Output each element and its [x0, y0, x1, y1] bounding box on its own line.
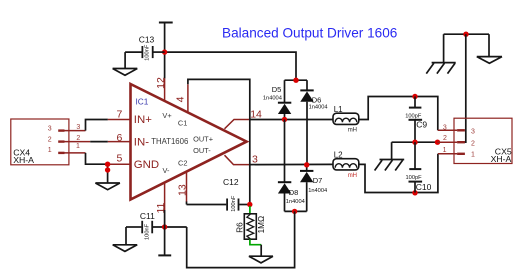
svg-text:3: 3 [443, 124, 447, 131]
svg-text:2: 2 [76, 135, 80, 142]
IC1 pin 13 [186, 172, 188, 202]
svg-text:XH-A: XH-A [491, 154, 512, 164]
wire bottom rail to V- net [187, 211, 295, 267]
IC1 pin 14 OUT+ [225, 120, 250, 129]
svg-text:OUT+: OUT+ [193, 134, 213, 143]
CX4 pin 3 lead [65, 130, 86, 132]
inductor L1 [333, 105, 359, 134]
svg-text:D8: D8 [289, 188, 299, 197]
svg-text:C11: C11 [140, 211, 155, 221]
junction C10 bottom [412, 190, 417, 195]
connector CX5 [454, 118, 512, 164]
diode D6 [300, 80, 327, 165]
diode bottom rail [285, 210, 307, 212]
wire D8 branch from OUT+ [284, 120, 286, 182]
svg-text:1MΩ: 1MΩ [257, 216, 266, 234]
capacitor C11 [126, 211, 187, 240]
mid node wire [392, 141, 438, 143]
inductor L2 [333, 150, 359, 179]
svg-text:1: 1 [76, 143, 80, 150]
svg-text:C9: C9 [416, 119, 427, 129]
svg-text:1n4004: 1n4004 [309, 104, 328, 110]
svg-text:L1: L1 [334, 105, 343, 114]
svg-text:100pF: 100pF [406, 175, 423, 181]
wire OUT+ net to L1 [249, 119, 334, 121]
junction C9 top [412, 94, 417, 99]
junction OUT+ / D5 [282, 117, 287, 122]
IC1 pin 11 [164, 183, 166, 211]
ground at CX4 [95, 183, 120, 190]
svg-text:1n4004: 1n4004 [263, 96, 282, 102]
svg-text:IN+: IN+ [134, 114, 152, 126]
IC1 pin 5 [108, 163, 131, 165]
capacitor C12 [187, 177, 250, 212]
ground at C11 [113, 227, 138, 251]
wire pin13 corner [186, 202, 188, 205]
svg-text:D5: D5 [272, 85, 282, 94]
svg-text:mH: mH [348, 128, 357, 134]
earth ground mid [375, 142, 405, 170]
svg-text:D6: D6 [312, 95, 322, 104]
svg-text:100nF: 100nF [231, 195, 237, 212]
svg-text:1: 1 [471, 152, 475, 159]
svg-text:5: 5 [117, 152, 123, 164]
diode D7 [300, 165, 327, 212]
svg-text:13: 13 [176, 184, 188, 196]
svg-text:1n4004: 1n4004 [286, 199, 305, 205]
wire R6 to ground (green) [250, 239, 261, 245]
svg-text:THAT1606: THAT1606 [151, 137, 188, 146]
svg-text:D7: D7 [313, 176, 323, 185]
wire CX4 pin1 to ground / IC pin5 [86, 153, 108, 164]
resistor R6 [236, 206, 266, 239]
svg-text:1n4004: 1n4004 [308, 188, 327, 194]
CX5 pin 2 lead [438, 141, 458, 143]
IC1 pin 7 [108, 119, 131, 121]
svg-text:IN-: IN- [134, 136, 149, 148]
svg-text:C13: C13 [139, 35, 155, 45]
svg-text:100nF: 100nF [145, 223, 151, 240]
junction OUT- / D7 [304, 162, 309, 167]
wire pin11 to V- bar [164, 210, 166, 255]
svg-text:100nF: 100nF [144, 44, 150, 61]
diode D8 [278, 182, 305, 211]
IC1 pin 3 OUT- [225, 155, 250, 164]
diode rail top [285, 79, 308, 81]
svg-text:3: 3 [48, 125, 52, 132]
svg-text:2: 2 [443, 135, 447, 142]
wire CX4 pin3 to IC pin7 [86, 120, 108, 131]
svg-text:R6: R6 [236, 222, 245, 233]
wire CX4 pin2 to IC pin6 [90, 141, 108, 143]
junction node at C13 [162, 49, 167, 54]
svg-text:C12: C12 [223, 177, 239, 187]
junction mid node [412, 140, 417, 145]
supply bar V- bottom [158, 254, 171, 256]
svg-text:mH: mH [348, 173, 357, 179]
wire gnd drop [107, 164, 109, 183]
capacitor C9 [405, 97, 427, 143]
junction bottom rail [292, 209, 297, 214]
svg-text:GND: GND [134, 159, 159, 171]
svg-text:V+: V+ [162, 111, 171, 120]
svg-text:IC1: IC1 [136, 97, 149, 107]
svg-text:OUT-: OUT- [193, 146, 211, 155]
svg-text:C2: C2 [178, 158, 187, 167]
wire C13 node to IC pin 12 [164, 52, 166, 78]
svg-text:XH-A: XH-A [13, 155, 34, 165]
svg-text:1: 1 [48, 147, 52, 154]
CX5 pin 3 lead [438, 129, 457, 131]
wire L2 to C10 bottom node [359, 154, 438, 193]
wire V+ bar to C13 node [164, 23, 166, 53]
IC1 pin 6 [108, 141, 131, 143]
CX5 pin 1 lead [438, 153, 457, 155]
svg-text:12: 12 [155, 77, 167, 89]
junction C11 / pin11 [162, 224, 167, 229]
wire L1 to C9 top node [359, 97, 438, 131]
svg-text:C10: C10 [416, 182, 432, 192]
svg-text:L2: L2 [334, 150, 343, 159]
IC1 op-amp triangle [131, 84, 247, 200]
junction top-right [463, 32, 468, 37]
svg-text:C1: C1 [178, 118, 187, 127]
top-right rail [444, 33, 489, 35]
svg-text:6: 6 [117, 132, 123, 144]
junction pin2 branch [435, 140, 440, 145]
svg-text:4: 4 [174, 96, 186, 102]
svg-text:Balanced Output Driver 1606: Balanced Output Driver 1606 [222, 26, 397, 41]
ground below R6 [249, 256, 273, 263]
IC1 pin 12 [164, 78, 166, 101]
svg-text:7: 7 [117, 109, 123, 121]
wire pin4 to R6/C12 node [188, 79, 250, 204]
chevron ground top-right [477, 34, 502, 63]
wire OUT- net to L2 [249, 163, 334, 165]
svg-text:V-: V- [163, 166, 171, 175]
svg-text:3: 3 [76, 124, 80, 131]
svg-text:2: 2 [471, 140, 475, 147]
capacitor C13 [125, 35, 165, 61]
CX4 pin 1 lead [65, 152, 86, 154]
supply bar V+ top [159, 22, 173, 24]
ground at C13 [113, 52, 138, 75]
wire to chevron ground [260, 245, 262, 257]
capacitor C10 [406, 142, 432, 192]
junction at diode rail [293, 78, 298, 83]
earth ground top-right [426, 34, 455, 73]
junction C12/R6 [247, 202, 252, 207]
svg-text:3: 3 [471, 128, 475, 135]
wire top rail to CX5 pin2 [462, 34, 466, 142]
CX4 pin 2 lead [65, 141, 91, 143]
diode D5 [263, 80, 291, 119]
connector CX4 [11, 119, 69, 165]
wire C13 node to D5/D6 feed [165, 52, 296, 80]
IC1 pin 4 [187, 84, 189, 112]
svg-text:1: 1 [443, 147, 447, 154]
svg-text:2: 2 [48, 136, 52, 143]
junction dots at CX4 ground [105, 162, 110, 167]
